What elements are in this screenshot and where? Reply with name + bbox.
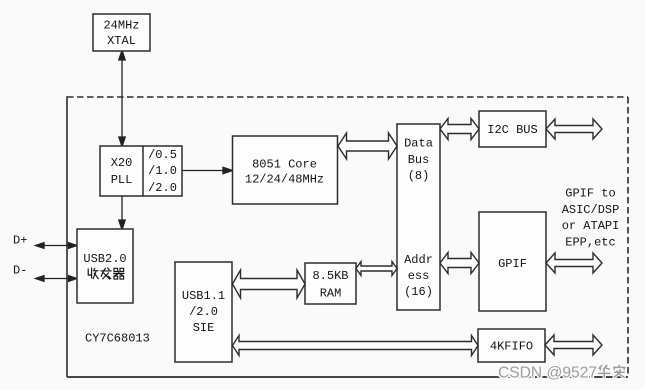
- svg-text:USB2.0: USB2.0: [83, 252, 126, 266]
- svg-text:or ATAPI: or ATAPI: [562, 219, 620, 233]
- svg-text:GPIF to: GPIF to: [565, 187, 615, 201]
- svg-text:4KFIFO: 4KFIFO: [490, 340, 533, 354]
- svg-text:/1.0: /1.0: [148, 164, 177, 178]
- svg-text:8.5KB: 8.5KB: [312, 269, 348, 283]
- svg-text:I2C BUS: I2C BUS: [487, 123, 537, 137]
- svg-text:Addr: Addr: [404, 253, 433, 267]
- svg-text:USB1.1: USB1.1: [182, 289, 225, 303]
- svg-text:/2.0: /2.0: [189, 305, 218, 319]
- svg-text:/0.5: /0.5: [148, 148, 177, 162]
- svg-text:CY7C68013: CY7C68013: [85, 332, 150, 346]
- svg-text:SIE: SIE: [193, 321, 215, 335]
- svg-text:D-: D-: [13, 264, 27, 278]
- svg-text:Data: Data: [404, 137, 433, 151]
- svg-text:ess: ess: [408, 269, 430, 283]
- svg-text:ASIC/DSP: ASIC/DSP: [562, 203, 620, 217]
- svg-text:(16): (16): [404, 285, 433, 299]
- svg-text:XTAL: XTAL: [107, 34, 136, 48]
- svg-text:GPIF: GPIF: [498, 257, 527, 271]
- svg-text:/2.0: /2.0: [148, 181, 177, 195]
- svg-text:X20: X20: [111, 156, 133, 170]
- svg-text:Bus: Bus: [408, 153, 430, 167]
- svg-text:RAM: RAM: [320, 286, 342, 300]
- svg-text:PLL: PLL: [111, 173, 133, 187]
- svg-text:24MHz: 24MHz: [103, 19, 139, 33]
- svg-text:EPP,etc: EPP,etc: [565, 235, 615, 249]
- svg-text:D+: D+: [13, 234, 27, 248]
- svg-text:CSDN @9527: CSDN @9527: [498, 365, 597, 382]
- svg-text:(8): (8): [408, 169, 430, 183]
- svg-text:12/24/48MHz: 12/24/48MHz: [245, 173, 324, 187]
- svg-text:8051 Core: 8051 Core: [252, 158, 317, 172]
